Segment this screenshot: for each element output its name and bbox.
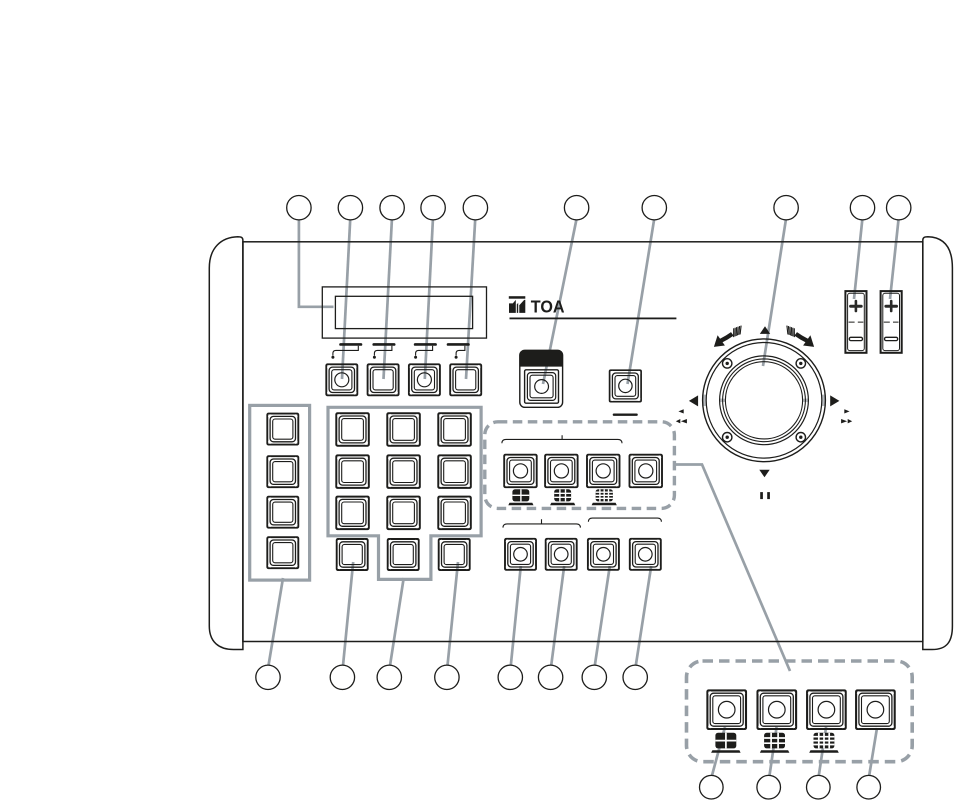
callout circle bottom 1: [256, 665, 280, 689]
leader line from keypad outline: [390, 578, 404, 666]
function key F1 legend tab: [331, 343, 362, 359]
sequence key 1: [588, 539, 619, 570]
dial arrow up: [760, 326, 770, 334]
leader line from sequence key 1: [595, 566, 610, 666]
keypad bottom key 3: [439, 539, 470, 570]
bracket over multi-screen buttons: [502, 435, 622, 443]
leader line from keypad bottom-right key: [448, 562, 459, 666]
callout circle detail 4: [857, 775, 881, 799]
LCD display outer bezel: [322, 287, 486, 338]
callout circle top 7: [642, 196, 666, 220]
function key F3: [409, 364, 440, 395]
leader line from keypad bottom-left key: [343, 562, 353, 666]
TOA logo mark: [509, 296, 526, 313]
console main panel outline: [243, 242, 923, 642]
detail multi-screen button 3: [807, 690, 846, 729]
TOA logo underline: [510, 318, 677, 320]
callout circle bottom 3: [377, 665, 401, 689]
leader line from sequence key 2: [636, 566, 651, 666]
dial rotation arrow clockwise: [787, 326, 814, 347]
monitor select key 2: [546, 539, 577, 570]
jog dial gray shading marks: [704, 395, 823, 406]
callout circle bottom 7: [582, 665, 606, 689]
group box: numeric keypad outline: [328, 407, 481, 579]
leader line to volume slider 2: [890, 220, 899, 299]
callout circle top 6: [564, 196, 588, 220]
callout circle top 8: [774, 196, 798, 220]
dashed group: multi-screen select buttons: [485, 422, 675, 509]
console body fill: [209, 237, 952, 650]
jog dial screw 1: [723, 359, 732, 368]
keypad key 9: [438, 497, 471, 529]
callout circle bottom 4: [435, 665, 459, 689]
multi-screen select button 2: [545, 455, 578, 488]
leader line from detail button 4: [869, 728, 877, 776]
keypad key 7: [336, 497, 369, 529]
camera selector key 4: [267, 537, 298, 568]
detail 16-split screen icon: [809, 733, 839, 753]
keypad key 2: [387, 413, 420, 446]
svg-text:TOA: TOA: [531, 297, 565, 317]
callout circle bottom 8: [623, 665, 647, 689]
leader line to monitor button: [543, 220, 576, 384]
jog dial screw 4: [796, 433, 805, 442]
pause mark: [760, 492, 770, 499]
callout circle top 3: [380, 196, 404, 220]
keypad bottom key 2: [388, 539, 419, 570]
dashed group: enlarged detail of multi-screen select buttons: [687, 661, 913, 762]
camera selector key 1: [267, 414, 298, 445]
monitor select key 1: [505, 539, 536, 570]
leader line to jog shuttle dial: [763, 220, 786, 366]
function key F4 legend tab: [447, 343, 470, 359]
group box: camera selector column: [250, 405, 310, 580]
jog dial screw 3: [723, 433, 732, 442]
keypad key 4: [336, 455, 369, 488]
keypad key 3: [438, 413, 471, 446]
fast reverse double arrow: [676, 419, 687, 423]
callout circle top 2: [338, 196, 362, 220]
leader line to function key F3: [425, 220, 433, 379]
console left end cap outline: [209, 237, 243, 650]
keypad key 6: [438, 455, 471, 488]
callout circle top 9: [850, 196, 874, 220]
detail 4-split screen icon: [711, 733, 741, 753]
bracket over monitor select keys: [503, 519, 580, 527]
function key F2: [368, 364, 399, 395]
detail multi-screen button 2: [758, 690, 797, 729]
small forward arrow: [844, 409, 849, 413]
multi-screen select button 1: [504, 455, 537, 488]
leader line from monitor select key 1: [511, 566, 521, 666]
detail 9-split screen icon: [760, 733, 790, 753]
callout circle detail 3: [807, 775, 831, 799]
16-split screen icon: [592, 489, 617, 505]
small reverse arrow: [678, 409, 683, 413]
dial arrow right: [830, 395, 839, 406]
callout circle bottom 2: [330, 665, 354, 689]
callout circle bottom 6: [538, 665, 562, 689]
camera selector key 2: [267, 456, 298, 487]
keypad key 5: [387, 455, 420, 488]
dial rotation arrow counterclockwise: [714, 326, 741, 347]
detail multi-screen button 4: [856, 690, 895, 729]
clear button: [610, 370, 642, 402]
leader line to volume slider 1: [854, 220, 862, 299]
leader line to function key F4: [466, 220, 475, 379]
bracket over sequence keys: [588, 518, 661, 522]
camera selector key 3: [267, 497, 298, 528]
detail multi-screen button 1: [707, 690, 746, 729]
keypad bottom key 1: [337, 539, 368, 570]
jog dial screw 2: [796, 359, 805, 368]
callout circle top 5: [463, 196, 487, 220]
leader line from detail button 2: [770, 727, 777, 776]
sequence key 2: [630, 539, 661, 570]
leader line to function key F2: [384, 220, 392, 379]
callout circle bottom 5: [498, 665, 522, 689]
callout circle detail 2: [757, 775, 781, 799]
leader line to function key F1: [342, 220, 350, 379]
function key F1: [326, 364, 357, 395]
9-split screen icon: [550, 489, 575, 505]
keypad key 1: [336, 413, 369, 446]
callout circle top 4: [421, 196, 445, 220]
volume slider 1: [845, 291, 866, 353]
leader link from dashed group to detail view: [674, 465, 791, 672]
leader line to clear button: [628, 220, 655, 384]
callout circle detail 1: [700, 775, 724, 799]
leader line to LCD display: [299, 220, 334, 307]
keypad key 8: [387, 497, 420, 529]
callout circle top 10: [887, 196, 911, 220]
function key F4: [450, 364, 481, 395]
volume slider 2: [881, 291, 902, 353]
4-split screen icon: [508, 489, 533, 505]
dial arrow down: [759, 470, 769, 478]
clear button underline mark: [613, 414, 638, 416]
callout circle top 1: [287, 196, 311, 220]
dial arrow left: [689, 395, 698, 406]
leader line from detail button 3: [819, 727, 826, 776]
LCD display screen: [335, 296, 472, 328]
jog shuttle dial: [703, 339, 826, 462]
monitor button with black cap: [520, 350, 563, 407]
function key F2 legend tab: [372, 343, 395, 359]
fast forward double arrow: [841, 419, 852, 423]
leader line from detail button 1: [712, 727, 725, 776]
multi-screen select button 3: [587, 455, 620, 488]
function key F3 legend tab: [414, 343, 437, 359]
leader line from monitor select key 2: [551, 566, 564, 666]
leader line from camera selector column: [269, 578, 284, 666]
multi-screen select button 4: [630, 455, 663, 488]
console right end cap outline: [923, 237, 953, 650]
